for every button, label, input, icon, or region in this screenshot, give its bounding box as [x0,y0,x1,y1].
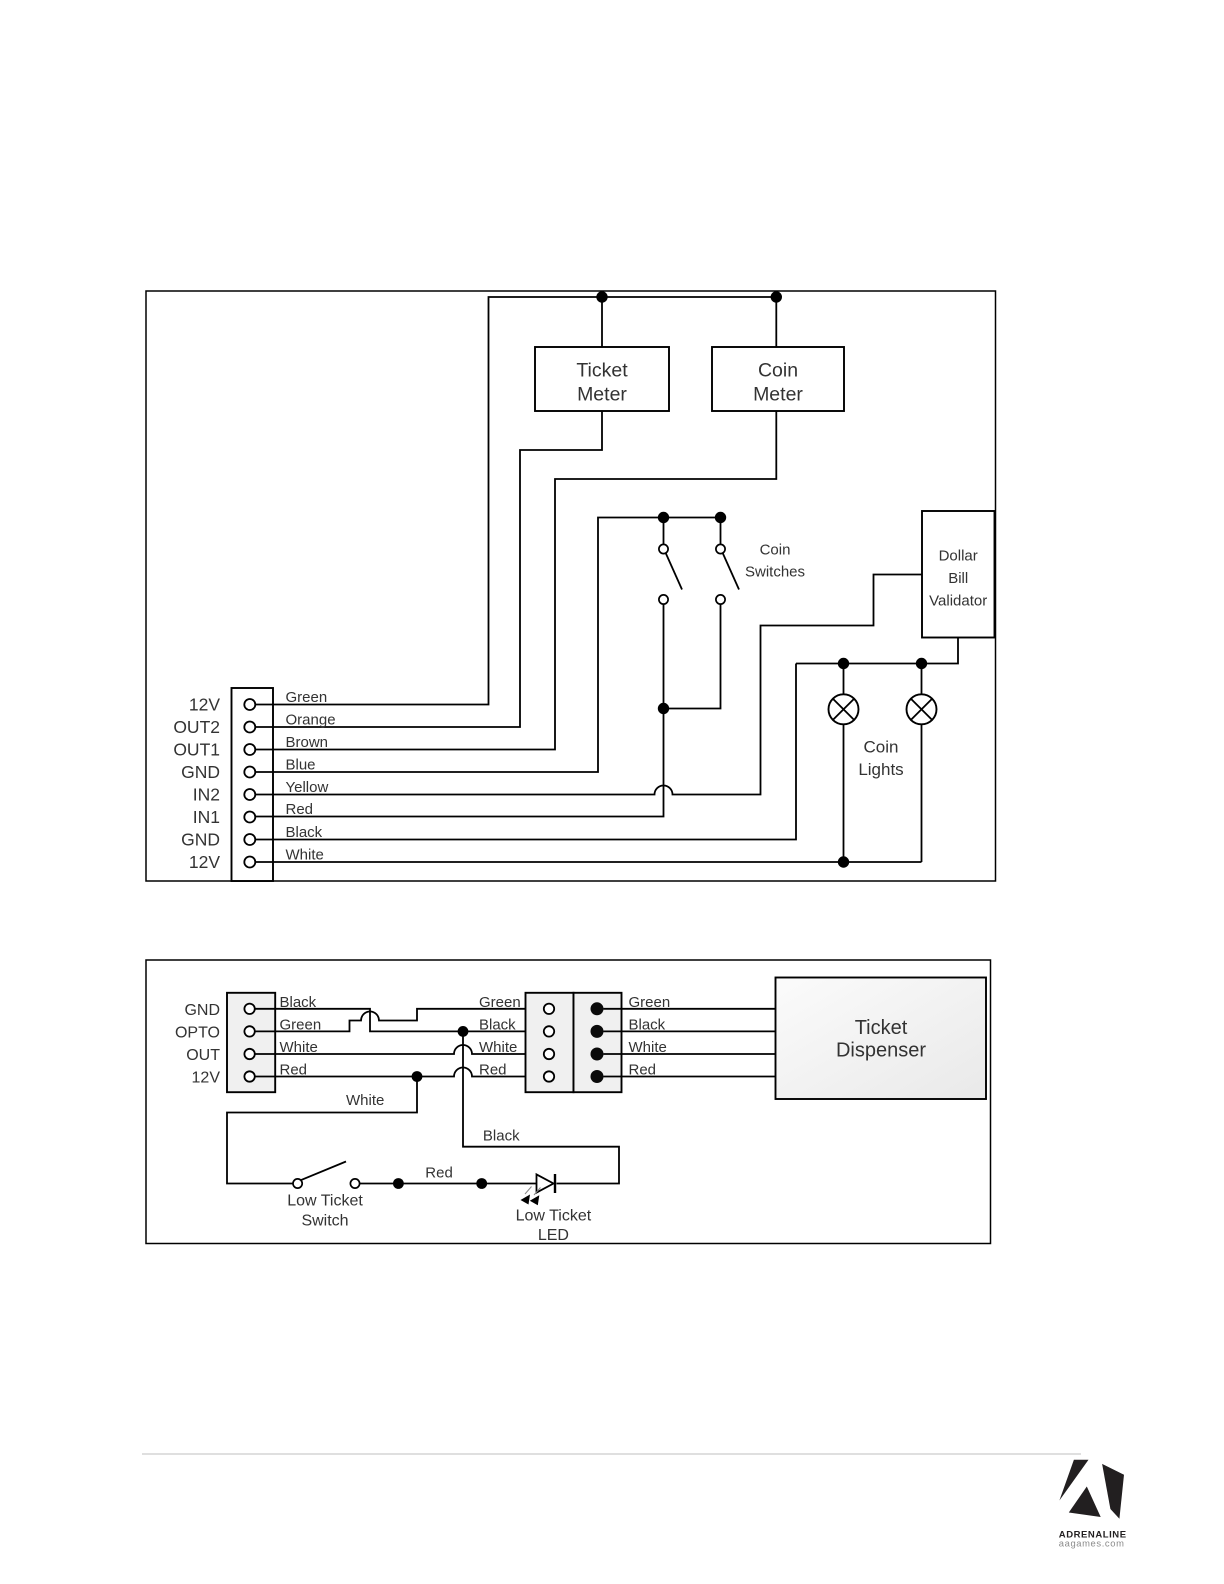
node junction on rail above Coin Meter [771,291,782,302]
panel 1 border frame [146,291,996,881]
svg-text:Bill: Bill [948,570,968,587]
pin 8 (12V) [244,857,255,868]
svg-text:Dispenser: Dispenser [836,1040,926,1062]
pin J3 socket 2 [544,1026,554,1036]
svg-text:Green: Green [629,994,671,1011]
logo mark center triangle [1069,1487,1101,1518]
svg-text:Switch: Switch [301,1213,348,1230]
svg-text:OUT1: OUT1 [173,740,220,760]
node splice left on red segment [393,1178,404,1189]
svg-text:White: White [280,1039,318,1056]
pin 1 (12V) [244,699,255,710]
pin J3 plug 1 [591,1002,604,1015]
node junction switch rail right [715,512,726,523]
pin 3 (OUT1) [244,744,255,755]
svg-text:Red: Red [629,1062,657,1079]
svg-text:LED: LED [538,1227,569,1244]
wire Red: J3 to dispenser [604,1076,776,1078]
connector J3 socket half [526,993,574,1092]
svg-text:Switches: Switches [745,564,805,581]
svg-text:Low Ticket: Low Ticket [287,1193,363,1210]
pin 7 (GND) [244,834,255,845]
svg-text:Black: Black [483,1128,520,1145]
wire White branch: red junction down to low ticket switch [227,1077,417,1184]
svg-text:Validator: Validator [929,593,987,610]
svg-text:Black: Black [280,994,317,1011]
wire Green: OPTO pin jogs up to row1 and hops over black [255,1009,544,1032]
lamp L2 (coin light right) [907,664,937,863]
svg-text:White: White [346,1092,384,1109]
svg-text:Yellow: Yellow [286,779,329,796]
label Low Ticket Switch [287,1193,363,1230]
wire Blue: pin4 to coin switch rail [256,518,721,773]
pin J3 socket 1 [544,1004,554,1014]
svg-text:White: White [479,1039,517,1056]
svg-text:OUT2: OUT2 [173,717,220,737]
pin 12V (J2-4) [244,1071,254,1081]
pin J3 plug 2 [591,1025,604,1038]
wire rail drop to Ticket Meter [601,297,603,347]
ticket dispenser U2 [776,978,987,1100]
footer divider line [142,1453,1081,1455]
svg-text:12V: 12V [189,852,220,872]
pin OUT (J2-3) [244,1049,254,1059]
wire from switch S2 to junction [664,604,721,708]
svg-text:12V: 12V [192,1070,221,1087]
wire Red: 12V pin to connector with hop over black drop [255,1068,544,1077]
node junction red wire to switch branch [412,1071,423,1082]
dollar bill validator U1 [922,511,995,638]
node junction switch rail left [658,512,669,523]
svg-text:12V: 12V [189,695,220,715]
node junction lights rail right [916,658,927,669]
svg-text:Blue: Blue [286,757,316,774]
lamp L1 (coin light left) [829,664,859,863]
node junction black wire to LED branch [458,1026,469,1037]
logo wordmark ADRENALINE [1059,1530,1127,1541]
node junction white return at lamp L1 [838,856,849,867]
svg-text:Red: Red [479,1062,507,1079]
wire White: pin8 to lamp returns [256,861,922,863]
pin GND (J2-1) [244,1004,254,1014]
svg-text:Black: Black [479,1016,516,1033]
svg-text:GND: GND [184,1002,220,1019]
pin J3 plug 3 [591,1048,604,1061]
node junction on rail above Ticket Meter [596,291,607,302]
wire Green: J3 to dispenser [604,1008,776,1010]
logo mark right blade [1102,1464,1124,1519]
wire Red: switch S1 to pin6 [256,604,664,816]
pin J3 socket 4 [544,1071,554,1081]
coin switch S2 [716,518,739,605]
svg-text:Green: Green [479,994,521,1011]
svg-text:Black: Black [286,824,323,841]
label Coin Lights [858,738,903,780]
logo url aagames.com [1059,1537,1125,1548]
svg-text:Dollar: Dollar [939,548,978,565]
pin 6 (IN1) [244,812,255,823]
wire Orange: Ticket Meter to pin2 [256,411,602,727]
wire Yellow: pin5 to Dollar Bill Validator (hops over red drop) [256,575,922,795]
svg-text:GND: GND [181,830,220,850]
svg-text:Green: Green [286,689,328,706]
svg-text:OPTO: OPTO [175,1025,220,1042]
wire rail drop to Coin Meter [775,297,777,347]
ticket meter M1 [535,347,669,411]
pin 2 (OUT2) [244,722,255,733]
svg-text:Brown: Brown [286,734,329,751]
wire Black: J3 to dispenser [604,1030,776,1032]
connector J3 plug half [574,993,622,1092]
wire Black: pin7 to lights rail [256,664,796,840]
wire Brown: Coin Meter to pin3 [256,411,777,750]
coin switch S1 [659,518,682,605]
pin 4 (GND) [244,767,255,778]
svg-text:Red: Red [286,801,314,818]
svg-text:Green: Green [280,1016,322,1033]
wire White: J3 to dispenser [604,1053,776,1055]
svg-text:OUT: OUT [186,1047,220,1064]
node splice right on red segment [476,1178,487,1189]
svg-text:aagames.com: aagames.com [1059,1537,1125,1548]
svg-text:IN1: IN1 [193,807,220,827]
svg-text:Lights: Lights [858,760,903,779]
svg-text:Coin: Coin [864,738,899,757]
wire Black: GND pin crosses down to row2 [255,1009,544,1032]
svg-text:Ticket: Ticket [576,360,628,382]
svg-text:Meter: Meter [577,384,627,406]
svg-text:Red: Red [425,1165,453,1182]
svg-text:Coin: Coin [760,542,791,559]
svg-text:Coin: Coin [758,360,798,382]
svg-text:Low Ticket: Low Ticket [516,1207,592,1224]
pin 5 (IN2) [244,789,255,800]
wire Green: pin1 to meters supply rail [256,297,777,705]
wire validator output to coin lights rail [796,638,958,664]
node junction lights rail left [838,658,849,669]
svg-text:Black: Black [629,1016,666,1033]
wire White: OUT pin to connector with hop over black drop [255,1045,544,1054]
svg-text:GND: GND [181,762,220,782]
logo mark left blade [1059,1460,1088,1501]
svg-text:Meter: Meter [753,384,803,406]
panel 2 border frame [146,960,991,1244]
svg-text:Orange: Orange [286,712,336,729]
node junction below switch S1 [658,703,669,714]
wire Black branch: junction to LED cathode [463,1031,619,1183]
coin meter M2 [712,347,844,411]
LED D1 (low ticket LED) [521,1174,556,1205]
connector J2 (4-pin) [227,993,275,1092]
svg-text:White: White [286,847,324,864]
svg-text:IN2: IN2 [193,785,220,805]
svg-text:Ticket: Ticket [855,1017,908,1039]
wire Red: switch to LED anode [360,1183,538,1185]
label Coin Switches [745,542,805,581]
pin J3 plug 4 [591,1070,604,1083]
connector J1 (8-pin) [232,688,274,881]
svg-text:White: White [629,1039,667,1056]
pin J3 socket 3 [544,1049,554,1059]
svg-text:Red: Red [280,1062,308,1079]
pin OPTO (J2-2) [244,1026,254,1036]
label Low Ticket LED [516,1207,592,1244]
low ticket switch S3 [293,1162,360,1189]
